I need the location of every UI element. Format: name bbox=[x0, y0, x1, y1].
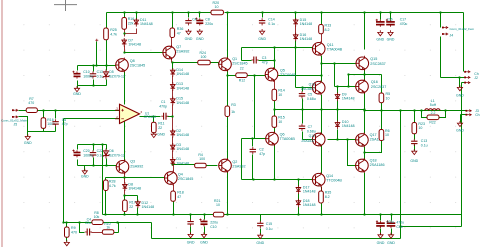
svg-text:10: 10 bbox=[385, 133, 389, 137]
wire C13 to GND bbox=[414, 145, 416, 151]
wire Q18 base path bbox=[348, 140, 356, 166]
wire R28 top lead bbox=[105, 178, 107, 181]
wire +V rail end corner down to J2 bbox=[463, 13, 465, 72]
transistor Q11 bbox=[312, 41, 342, 56]
junction dots q3 area bbox=[123, 176, 125, 196]
resistor R4 bbox=[195, 163, 207, 168]
svg-text:R35: R35 bbox=[325, 190, 332, 194]
svg-text:1N4148: 1N4148 bbox=[176, 101, 189, 105]
svg-text:1N4148: 1N4148 bbox=[142, 205, 155, 209]
resistor R12 bbox=[236, 73, 248, 78]
resistor R18 bbox=[171, 190, 184, 201]
svg-text:Conn_01x02_Fem: Conn_01x02_Fem bbox=[450, 27, 475, 31]
svg-text:BZX79-12: BZX79-12 bbox=[109, 154, 125, 158]
transistor Q14 bbox=[312, 172, 342, 187]
svg-text:1N4148: 1N4148 bbox=[342, 97, 355, 101]
svg-text:2SC2837: 2SC2837 bbox=[371, 85, 386, 89]
wire C4b R10 branch left bbox=[80, 223, 85, 233]
wire speaker wire bbox=[365, 110, 466, 112]
svg-text:1N4148: 1N4148 bbox=[176, 161, 189, 165]
svg-text:Q2: Q2 bbox=[232, 160, 237, 164]
connector J4 pin 2 bbox=[442, 33, 448, 35]
wire bottom 470u gnd stubs bbox=[381, 229, 392, 235]
svg-text:GND: GND bbox=[376, 37, 384, 41]
wire Q7 collector to node A bbox=[171, 59, 173, 63]
wire V- block top bbox=[78, 145, 107, 151]
svg-text:BZX79-12: BZX79-12 bbox=[109, 75, 125, 79]
resistor R16 bbox=[122, 17, 134, 29]
capacitor C8 bbox=[195, 18, 203, 26]
svg-text:TTA004B: TTA004B bbox=[280, 137, 296, 141]
connector J5 pin 1 bbox=[12, 109, 18, 111]
wire Q3 collector to opamp V- bbox=[124, 122, 126, 161]
ground under C10b bbox=[200, 232, 208, 244]
capacitor C18 bbox=[376, 220, 385, 228]
wire rail to J4 pin1 bbox=[440, 13, 442, 28]
wire +V rail drop to R25 bbox=[106, 13, 108, 29]
capacitor C3 bbox=[251, 57, 258, 64]
svg-text:C14: C14 bbox=[268, 18, 274, 22]
svg-text:47: 47 bbox=[177, 195, 181, 199]
wire rail to R16 22k bbox=[124, 13, 126, 18]
svg-text:R25: R25 bbox=[110, 28, 117, 32]
junction dots speaker wire bbox=[363, 109, 446, 111]
wire feedback bottom wire bbox=[152, 238, 401, 240]
diode D16 bbox=[293, 33, 312, 42]
svg-text:2SA992: 2SA992 bbox=[176, 50, 189, 54]
svg-text:1N4148: 1N4148 bbox=[300, 37, 313, 41]
resistor R5 bbox=[379, 92, 390, 103]
svg-text:GND: GND bbox=[185, 37, 193, 41]
ground under C16t bbox=[376, 30, 384, 41]
wire rail to C4 cap bbox=[188, 13, 190, 18]
wire R12 leads bbox=[228, 75, 322, 77]
svg-text:47p: 47p bbox=[62, 122, 68, 126]
transistor Q17 bbox=[356, 132, 385, 147]
wire R36 to Q7 emitter bbox=[171, 38, 173, 47]
svg-text:Q16: Q16 bbox=[371, 80, 378, 84]
svg-text:Q13: Q13 bbox=[309, 83, 315, 87]
junction dots +V rail bbox=[123, 11, 441, 13]
wire R11 top lead bbox=[153, 117, 155, 123]
wire J5 pin1 to R7 bbox=[19, 110, 27, 112]
wire GND stub under C10 bbox=[77, 86, 79, 89]
svg-text:2SC1845: 2SC1845 bbox=[130, 64, 145, 68]
resistor R14 bbox=[272, 89, 285, 101]
connector J3 pin 1 bbox=[466, 110, 472, 112]
wire rail to Q1 collector bbox=[227, 13, 229, 59]
svg-text:470u: 470u bbox=[387, 220, 394, 224]
diode D15 bbox=[171, 97, 189, 106]
svg-text:GND: GND bbox=[73, 92, 81, 96]
wire opamp output bbox=[140, 116, 161, 118]
svg-text:GND: GND bbox=[377, 241, 385, 245]
wire J2 gnd stub bbox=[459, 78, 461, 88]
wire C2 column bbox=[252, 139, 254, 180]
wire V+ node horizontal bbox=[78, 65, 116, 67]
wire Q6 base wire bbox=[242, 138, 266, 140]
wire rail to Q15 collector bbox=[364, 13, 366, 50]
svg-text:GND: GND bbox=[157, 132, 165, 136]
wire rail to C17 cap bbox=[380, 13, 382, 20]
wire C10 top lead bbox=[77, 66, 79, 71]
wire drive node links bbox=[321, 64, 323, 82]
zener D5 bbox=[103, 70, 110, 80]
capacitor C6 bbox=[52, 119, 58, 126]
wire Q3 emitter to node bbox=[124, 173, 126, 178]
svg-text:C13: C13 bbox=[421, 139, 427, 143]
wire D12 leads bbox=[137, 196, 139, 215]
svg-text:8.2: 8.2 bbox=[325, 28, 330, 32]
wire rail to C8 cap bbox=[199, 13, 201, 18]
resistor R9 bbox=[65, 226, 78, 237]
wire Q16 bias drop bbox=[334, 64, 336, 87]
svg-text:1N4148: 1N4148 bbox=[176, 72, 189, 76]
svg-text:22: 22 bbox=[240, 67, 244, 71]
capacitor C2 bbox=[250, 147, 256, 154]
wire C1 to chain mid node bbox=[168, 116, 173, 118]
wire upper driver base wire bbox=[322, 63, 357, 65]
svg-text:GND: GND bbox=[200, 240, 208, 244]
svg-text:OPA134: OPA134 bbox=[144, 115, 156, 119]
svg-text:GND: GND bbox=[256, 241, 264, 245]
capacitor C5 bbox=[299, 91, 305, 98]
transistor Q16 bbox=[356, 79, 387, 94]
wire input node bbox=[38, 110, 120, 112]
wire D1 to bottom node bbox=[172, 164, 174, 165]
svg-text:0.1u: 0.1u bbox=[268, 22, 275, 26]
wire J2 gnd wire bbox=[441, 77, 465, 79]
connector J2 pin 2 bbox=[464, 76, 470, 78]
ground J3 bbox=[456, 121, 464, 132]
resistor R28 bbox=[104, 179, 116, 190]
svg-text:5uH: 5uH bbox=[430, 103, 437, 107]
svg-text:0.1u: 0.1u bbox=[421, 143, 428, 147]
svg-text:1N4148: 1N4148 bbox=[300, 22, 313, 26]
wire R16/D11 junction link bbox=[125, 29, 137, 37]
transistor Q12 bbox=[312, 132, 325, 147]
wire R22 left leg bbox=[422, 111, 428, 118]
wire rail to C19t cap bbox=[390, 13, 392, 20]
diode D9 bbox=[335, 92, 354, 101]
svg-text:47p: 47p bbox=[259, 152, 265, 156]
diode D15b bbox=[293, 18, 312, 27]
wire D8 leads bbox=[124, 178, 126, 196]
svg-text:R5: R5 bbox=[386, 92, 391, 96]
svg-text:2SA1837: 2SA1837 bbox=[301, 139, 315, 143]
transistor Q18 bbox=[356, 158, 385, 173]
wire Q3 base wire bbox=[116, 165, 118, 167]
connector J2 pin 3 bbox=[464, 81, 470, 83]
svg-text:R13: R13 bbox=[325, 23, 332, 27]
wire R14 to mid rail bbox=[274, 101, 276, 110]
transistor Q13 bbox=[312, 80, 325, 95]
wire Q11 emitter down bbox=[321, 56, 323, 64]
transistor Q4 bbox=[165, 171, 194, 186]
wire output link upper bbox=[401, 226, 462, 228]
capacitor C4b bbox=[85, 229, 92, 236]
wire feedback mid wire bbox=[64, 222, 152, 224]
wire C15 stub bbox=[260, 215, 262, 235]
wire Q16 emitter down bbox=[364, 93, 366, 110]
svg-text:R28: R28 bbox=[109, 179, 116, 183]
wire D7 to Q8 collector node bbox=[124, 46, 126, 53]
wire Q4 collector tap bbox=[173, 165, 175, 172]
wire rail to C16 cap bbox=[262, 13, 264, 18]
svg-text:GND: GND bbox=[456, 128, 464, 132]
capacitor C7 bbox=[299, 124, 305, 131]
svg-text:Q3: Q3 bbox=[130, 160, 135, 164]
svg-text:8.2: 8.2 bbox=[325, 195, 330, 199]
wire R25 to V+ node bbox=[106, 40, 108, 66]
wire D2-D3 link bbox=[172, 137, 174, 145]
wire R18 to -rail bbox=[173, 202, 175, 215]
wire D16 to bias node bbox=[295, 41, 297, 48]
wire Q17-Q18 link bbox=[364, 147, 366, 160]
wire mid node to D2 bbox=[172, 117, 174, 131]
wire R10 branch right bbox=[114, 223, 119, 233]
svg-text:R9: R9 bbox=[71, 226, 76, 230]
svg-text:C2: C2 bbox=[259, 147, 264, 151]
resistor R6 bbox=[379, 129, 390, 141]
connector J2 pin 1 bbox=[464, 71, 470, 73]
svg-text:0.1u: 0.1u bbox=[266, 227, 273, 231]
svg-text:220u: 220u bbox=[210, 221, 218, 225]
wire D17 leads bbox=[298, 180, 300, 215]
svg-text:R11: R11 bbox=[158, 122, 164, 126]
transistor Q7 bbox=[163, 45, 190, 60]
svg-text:470p: 470p bbox=[159, 105, 167, 109]
junction dots supply blocks bbox=[92, 32, 125, 166]
sheet origin crosshair marker bbox=[54, 0, 77, 11]
svg-text:2SA992: 2SA992 bbox=[130, 164, 143, 168]
wire output node column bbox=[364, 110, 366, 134]
wire D13-D15 link bbox=[172, 90, 174, 99]
diode D8 bbox=[123, 182, 141, 191]
svg-text:Q1: Q1 bbox=[232, 57, 237, 61]
wire Q17 base wire bbox=[303, 139, 356, 141]
svg-text:R14: R14 bbox=[278, 89, 285, 93]
svg-text:Q12: Q12 bbox=[309, 134, 315, 138]
wire rail to D11 bbox=[136, 13, 138, 20]
resistor R17 bbox=[123, 200, 136, 212]
svg-text:1N4148: 1N4148 bbox=[342, 124, 355, 128]
svg-text:J2: J2 bbox=[474, 76, 478, 80]
diode D1 bbox=[171, 157, 189, 166]
ground under C17 bbox=[387, 30, 395, 41]
ground under C13 bbox=[410, 149, 418, 163]
diode D13 bbox=[171, 82, 189, 91]
svg-text:1N4148: 1N4148 bbox=[128, 187, 141, 191]
svg-text:Q7: Q7 bbox=[176, 45, 181, 49]
svg-text:C19: C19 bbox=[396, 225, 402, 229]
wire feedback drop bbox=[151, 223, 153, 239]
op-amp U1 bbox=[120, 104, 140, 123]
wire R9 top lead bbox=[66, 223, 68, 228]
ground under R11 bbox=[151, 132, 165, 138]
wire C5 bottom lead bbox=[302, 99, 304, 110]
svg-text:R22: R22 bbox=[429, 121, 435, 125]
svg-text:R15: R15 bbox=[278, 115, 285, 119]
wire R15 leads bbox=[274, 110, 276, 180]
wire L1 left bbox=[422, 110, 425, 112]
wire node A to R24 bbox=[173, 62, 198, 64]
wire C6 leads bbox=[55, 111, 57, 132]
wire -V bottom rail bbox=[103, 214, 462, 216]
wire R13 to Q11 collector bbox=[321, 34, 323, 43]
svg-text:J4: J4 bbox=[450, 33, 454, 37]
junction dots drive bbox=[320, 62, 365, 153]
wire D15-D16 link bbox=[295, 26, 297, 35]
capacitor C17 bbox=[386, 19, 395, 27]
svg-text:220u: 220u bbox=[205, 22, 213, 26]
svg-text:1k: 1k bbox=[106, 225, 110, 229]
svg-text:C22: C22 bbox=[97, 149, 103, 153]
ground under C16 bbox=[258, 29, 266, 41]
capacitor C4t bbox=[185, 18, 191, 25]
wire zener D6 leads bbox=[106, 145, 108, 166]
svg-text:47: 47 bbox=[177, 31, 181, 35]
wire R4 to Q2 base bbox=[207, 165, 218, 167]
svg-text:100: 100 bbox=[201, 55, 207, 59]
ground under C4t bbox=[185, 29, 193, 41]
capacitor C10 bbox=[72, 71, 80, 79]
svg-text:C17: C17 bbox=[400, 18, 406, 22]
capacitor C15 bbox=[257, 221, 263, 228]
capacitor C9 bbox=[187, 219, 193, 226]
svg-text:R12: R12 bbox=[239, 79, 245, 83]
svg-text:C10: C10 bbox=[210, 225, 216, 229]
wire R6 bottom jog bbox=[365, 141, 382, 153]
resistor R22 bbox=[427, 115, 439, 120]
capacitor C22 bbox=[90, 150, 96, 157]
transistor Q15 bbox=[356, 56, 386, 71]
svg-text:22: 22 bbox=[158, 126, 162, 130]
ground J2 bbox=[456, 85, 464, 97]
wire GND stub input bbox=[27, 132, 29, 137]
svg-text:Q5: Q5 bbox=[280, 68, 285, 72]
wire R22 right leg bbox=[440, 111, 446, 118]
capacitor C10b bbox=[199, 219, 207, 227]
wire C3 left lead bbox=[242, 60, 252, 62]
wire C13 top lead bbox=[93, 66, 95, 72]
wire Q13 emitter to mid rail bbox=[321, 95, 323, 110]
transistor Q8 bbox=[116, 58, 145, 73]
svg-text:2SC3807: 2SC3807 bbox=[301, 87, 315, 91]
svg-text:2SA1186: 2SA1186 bbox=[370, 163, 385, 167]
wire q3 emitter node wire bbox=[106, 177, 165, 179]
wire -V feed vertical bbox=[102, 145, 104, 215]
svg-text:C5: C5 bbox=[308, 92, 313, 96]
svg-text:1N4148: 1N4148 bbox=[128, 43, 141, 47]
wire zener D5 leads bbox=[106, 66, 108, 86]
wire mid emitter rail bbox=[275, 109, 365, 111]
capacitor C1 bbox=[161, 113, 168, 120]
transistor Q3 bbox=[116, 159, 143, 174]
capacitor C16 bbox=[259, 18, 265, 25]
resistor R24 bbox=[198, 60, 211, 65]
diode D14 bbox=[171, 68, 189, 77]
transistor Q2 bbox=[219, 158, 246, 173]
resistor R8 bbox=[92, 220, 103, 225]
svg-text:10: 10 bbox=[216, 203, 220, 207]
svg-text:100: 100 bbox=[199, 157, 205, 161]
svg-text:C20: C20 bbox=[83, 149, 89, 153]
svg-text:10: 10 bbox=[278, 93, 282, 97]
resistor R21 bbox=[213, 212, 224, 217]
wire J4 pin2 down bbox=[440, 37, 442, 78]
junction dots mid rail bbox=[273, 108, 365, 110]
svg-text:C15: C15 bbox=[266, 222, 272, 226]
svg-text:22: 22 bbox=[129, 205, 133, 209]
wire R35 leads bbox=[321, 187, 323, 215]
wire VAS left vertical bbox=[241, 48, 243, 180]
svg-text:Q4: Q4 bbox=[178, 173, 183, 177]
svg-text:R3: R3 bbox=[231, 103, 236, 107]
resistor R11 bbox=[152, 122, 165, 133]
wire Q15-Q16 link bbox=[364, 70, 366, 81]
resistor R15 bbox=[272, 115, 285, 127]
svg-text:4.7k: 4.7k bbox=[110, 32, 117, 36]
wire Q16 base wire bbox=[335, 86, 356, 88]
wire +V top rail bbox=[107, 12, 464, 14]
svg-text:R16: R16 bbox=[128, 17, 135, 21]
ground under V- block bbox=[81, 169, 89, 179]
svg-text:10: 10 bbox=[418, 126, 422, 130]
svg-text:2SC2837: 2SC2837 bbox=[370, 62, 385, 66]
svg-text:470u: 470u bbox=[400, 22, 408, 26]
diode D17 bbox=[296, 185, 315, 194]
svg-text:Q6: Q6 bbox=[280, 133, 285, 137]
wire opamp -in feedback vertical bbox=[64, 119, 120, 223]
wire R6 top lead bbox=[381, 111, 383, 130]
ground under C15 bbox=[256, 233, 264, 245]
wire D9 leads bbox=[337, 87, 339, 110]
wire rail to R13 bbox=[321, 13, 323, 25]
svg-text:0.68u: 0.68u bbox=[307, 97, 316, 101]
svg-text:TTA004B: TTA004B bbox=[327, 48, 343, 52]
svg-text:1000u: 1000u bbox=[83, 75, 93, 79]
svg-text:GND: GND bbox=[456, 94, 464, 98]
wire Q1 emitter to R3 bbox=[227, 71, 229, 107]
svg-text:J5: J5 bbox=[14, 123, 18, 127]
wire R11 to GND bbox=[153, 133, 155, 134]
svg-text:Q14: Q14 bbox=[326, 174, 333, 178]
connector J5 pin 2 bbox=[12, 116, 18, 118]
svg-text:R18: R18 bbox=[177, 190, 184, 194]
svg-text:2SA992: 2SA992 bbox=[232, 164, 245, 168]
wire J3 gnd leg bbox=[461, 115, 466, 123]
svg-text:GND: GND bbox=[258, 37, 266, 41]
ground under C10 bbox=[73, 86, 81, 96]
wire C4b to R10 bbox=[92, 232, 103, 234]
diode D11 bbox=[134, 18, 153, 27]
wire input gnd net bbox=[28, 131, 56, 133]
ground under C19 bbox=[387, 233, 395, 245]
svg-text:1N4148: 1N4148 bbox=[176, 86, 189, 90]
wire lower bias wire bbox=[242, 179, 313, 181]
wire C5 top lead bbox=[302, 88, 304, 92]
svg-text:470: 470 bbox=[71, 231, 77, 235]
ground input bbox=[24, 134, 32, 145]
ground under R9 bbox=[64, 240, 69, 246]
svg-text:4.7k: 4.7k bbox=[109, 184, 116, 188]
svg-text:C10: C10 bbox=[83, 70, 89, 74]
resistor R3 bbox=[225, 106, 230, 117]
capacitor C13 bbox=[411, 139, 417, 146]
svg-text:C13: C13 bbox=[97, 70, 103, 74]
wire bottom caps gnd stubs bbox=[191, 227, 205, 235]
